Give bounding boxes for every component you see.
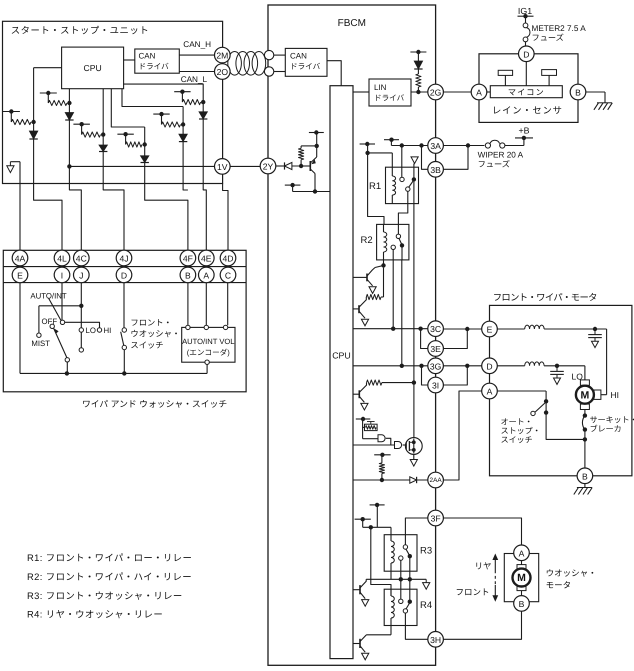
svg-text:3I: 3I: [432, 381, 439, 391]
svg-text:D: D: [486, 361, 492, 371]
svg-text:B: B: [185, 270, 191, 280]
svg-text:ストップ・: ストップ・: [501, 427, 541, 436]
svg-text:フロント・: フロント・: [130, 318, 172, 328]
svg-text:3E: 3E: [430, 344, 441, 354]
svg-text:4C: 4C: [76, 254, 87, 264]
svg-text:3B: 3B: [430, 165, 441, 175]
svg-text:E: E: [17, 270, 23, 280]
svg-text:ウオッシャ・: ウオッシャ・: [546, 568, 597, 578]
svg-text:A: A: [487, 387, 493, 397]
svg-text:R4: リヤ・ウオッシャ・リレー: R4: リヤ・ウオッシャ・リレー: [27, 609, 163, 620]
svg-text:CAN: CAN: [290, 52, 307, 61]
svg-text:LIN: LIN: [374, 83, 387, 92]
svg-text:MIST: MIST: [31, 339, 50, 348]
svg-text:R1: R1: [369, 181, 381, 192]
svg-text:レイン・センサ: レイン・センサ: [492, 106, 563, 116]
svg-text:ブレーカ: ブレーカ: [590, 425, 622, 434]
svg-text:J: J: [79, 270, 83, 280]
svg-text:B: B: [575, 88, 581, 98]
svg-text:2M: 2M: [216, 51, 228, 61]
svg-text:WIPER 20 A: WIPER 20 A: [478, 151, 524, 160]
svg-text:3C: 3C: [430, 324, 441, 334]
svg-text:CAN_L: CAN_L: [181, 75, 208, 84]
svg-text:HI: HI: [104, 326, 112, 335]
svg-text:B: B: [519, 599, 525, 609]
svg-text:R2: R2: [361, 235, 373, 246]
svg-text:ウオッシャ・: ウオッシャ・: [130, 329, 180, 339]
svg-text:リヤ: リヤ: [475, 561, 492, 571]
svg-text:4E: 4E: [201, 254, 212, 264]
svg-text:R1: フロント・ワイパ・ロー・リレー: R1: フロント・ワイパ・ロー・リレー: [27, 552, 192, 563]
svg-text:モータ: モータ: [546, 580, 572, 590]
svg-text:CAN_H: CAN_H: [183, 40, 211, 49]
svg-text:ドライバ: ドライバ: [139, 62, 170, 71]
svg-text:OFF: OFF: [42, 317, 58, 326]
svg-text:フューズ: フューズ: [478, 160, 510, 169]
svg-text:スイッチ: スイッチ: [130, 340, 163, 350]
svg-text:4F: 4F: [183, 254, 193, 264]
svg-text:4J: 4J: [119, 254, 128, 264]
svg-text:R3: R3: [420, 546, 432, 557]
svg-text:4L: 4L: [57, 254, 67, 264]
svg-text:2O: 2O: [217, 67, 229, 77]
svg-text:2G: 2G: [430, 88, 442, 98]
svg-text:ワイパ アンド ウォッシャ・スイッチ: ワイパ アンド ウォッシャ・スイッチ: [82, 399, 227, 409]
svg-text:METER2 7.5 A: METER2 7.5 A: [532, 24, 587, 33]
svg-text:3A: 3A: [430, 141, 441, 151]
svg-text:R4: R4: [420, 600, 432, 611]
svg-text:ドライバ: ドライバ: [374, 94, 405, 103]
svg-text:M: M: [581, 389, 590, 401]
svg-text:スイッチ: スイッチ: [501, 436, 533, 445]
svg-text:M: M: [517, 572, 526, 584]
svg-text:3G: 3G: [430, 361, 442, 371]
svg-text:3F: 3F: [431, 514, 441, 524]
svg-text:オート・: オート・: [501, 418, 533, 427]
svg-text:LO: LO: [86, 326, 96, 335]
svg-text:D: D: [523, 49, 529, 59]
svg-text:ドライバ: ドライバ: [290, 62, 321, 71]
svg-text:4D: 4D: [223, 254, 234, 264]
svg-text:CAN: CAN: [139, 52, 156, 61]
svg-text:CPU: CPU: [332, 351, 351, 361]
svg-text:D: D: [121, 270, 127, 280]
svg-text:C: C: [225, 270, 231, 280]
svg-text:AUTO/INT VOL: AUTO/INT VOL: [182, 337, 234, 346]
svg-text:フューズ: フューズ: [532, 34, 564, 43]
svg-text:A: A: [519, 548, 525, 558]
svg-text:サーキット・: サーキット・: [590, 416, 634, 425]
svg-text:フロント・ワイパ・モータ: フロント・ワイパ・モータ: [493, 293, 597, 303]
svg-text:4A: 4A: [15, 254, 26, 264]
svg-text:HI: HI: [611, 390, 620, 400]
svg-text:R3: フロント・ウオッシャ・リレー: R3: フロント・ウオッシャ・リレー: [27, 590, 183, 601]
svg-text:I: I: [61, 270, 63, 280]
svg-text:R2: フロント・ワイパ・ハイ・リレー: R2: フロント・ワイパ・ハイ・リレー: [27, 571, 192, 582]
svg-text:A: A: [476, 88, 482, 98]
svg-text:FBCM: FBCM: [338, 18, 366, 29]
svg-text:B: B: [582, 471, 588, 481]
svg-text:E: E: [487, 325, 493, 335]
svg-text:1V: 1V: [217, 162, 228, 172]
svg-text:スタート・ストップ・ユニット: スタート・ストップ・ユニット: [11, 26, 150, 36]
svg-text:2AA: 2AA: [430, 477, 443, 484]
svg-text:2Y: 2Y: [263, 162, 274, 172]
svg-text:A: A: [203, 270, 209, 280]
svg-text:マイコン: マイコン: [508, 88, 545, 97]
svg-text:(エンコーダ): (エンコーダ): [187, 348, 230, 357]
svg-text:フロント: フロント: [456, 587, 490, 597]
svg-text:3H: 3H: [430, 635, 441, 645]
svg-text:CPU: CPU: [84, 63, 102, 73]
svg-text:+B: +B: [518, 126, 529, 136]
